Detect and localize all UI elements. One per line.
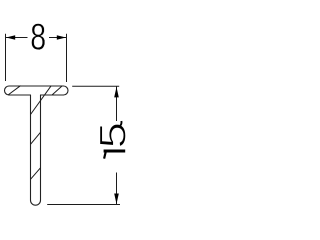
dimension line left segment <box>6 37 28 39</box>
dimension line right segment <box>49 37 67 39</box>
svg-text:8: 8 <box>30 16 46 57</box>
arrowhead 15 bottom <box>114 194 119 205</box>
dimension text 15 digit 5 (rotated) <box>93 122 134 148</box>
extension line left <box>5 34 7 81</box>
arrowhead 15 top <box>114 87 119 98</box>
stem left edge <box>30 95 32 200</box>
dimension text 8 <box>30 16 46 57</box>
svg-text:5: 5 <box>93 122 134 148</box>
dimension line lower segment <box>116 173 118 205</box>
hatch stem junction <box>31 86 52 115</box>
arrowhead 8 right <box>57 35 66 40</box>
dimension 8 : extension + dimension lines <box>6 34 67 82</box>
T-profile outline (stadium head + stem with round bottom) <box>5 86 69 205</box>
hatch head right <box>52 86 62 95</box>
extension line right <box>66 34 68 82</box>
hatch lines <box>8 86 62 180</box>
dimension text 15 digit 1 (rotated, drawn as strokes) <box>104 151 126 159</box>
stem right edge <box>40 95 42 200</box>
head right cap <box>64 86 69 95</box>
digit 5 bowl terminal tip <box>120 121 121 126</box>
hatch head left <box>8 86 21 95</box>
head top edge <box>9 85 64 87</box>
extension line bottom <box>47 204 120 206</box>
stem bottom cap <box>31 200 41 205</box>
hatch stem middle <box>31 132 41 144</box>
head bottom edge left segment <box>9 94 31 96</box>
extension line top <box>72 85 119 87</box>
head bottom edge right segment <box>41 94 64 96</box>
dimension 15 : extension + dimension lines <box>47 86 120 204</box>
hatch stem lower <box>31 168 41 180</box>
head left cap <box>5 86 10 95</box>
arrowhead 8 left <box>6 35 15 40</box>
dimension line upper segment <box>116 86 118 121</box>
